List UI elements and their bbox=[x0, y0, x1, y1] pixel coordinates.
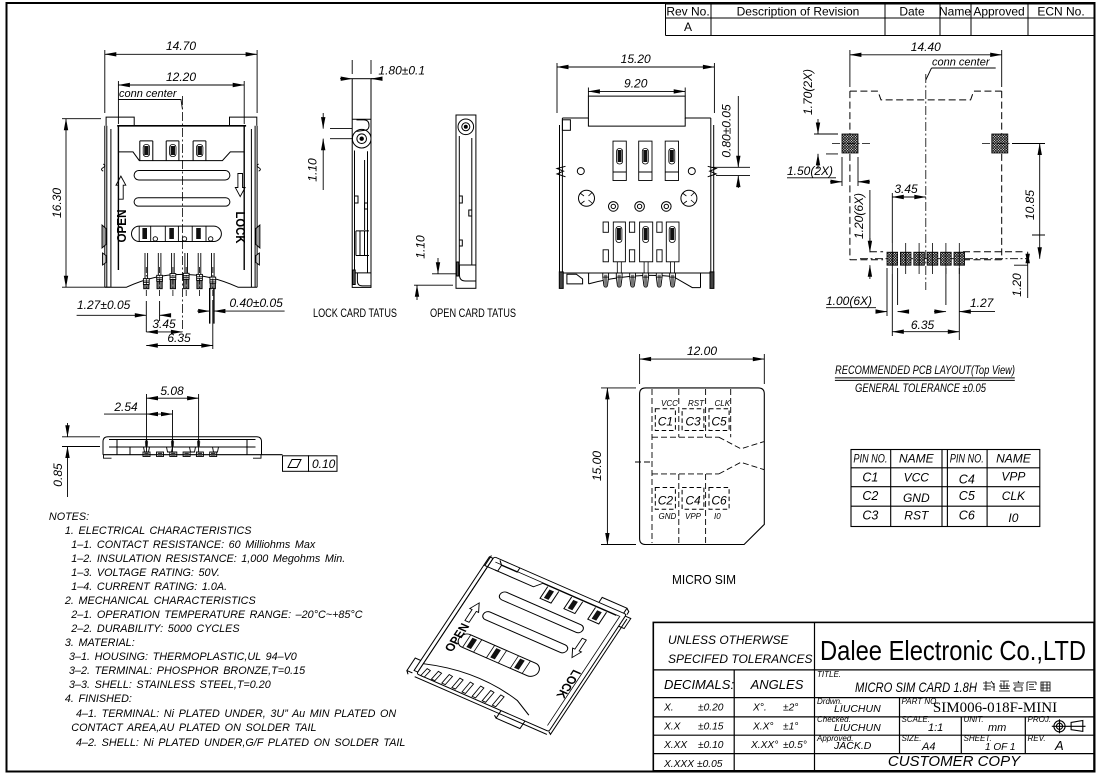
slots bbox=[132, 171, 230, 242]
lower contact slots bbox=[603, 222, 679, 262]
svg-text:A4: A4 bbox=[921, 741, 935, 753]
card outline bbox=[640, 388, 765, 545]
svg-text:X.X°: X.X° bbox=[752, 722, 774, 733]
svg-text:2–1. OPERATION TEMPERATURE RAN: 2–1. OPERATION TEMPERATURE RANGE: –20°C~… bbox=[70, 609, 362, 621]
top shoulder line bbox=[495, 564, 616, 621]
body outline bbox=[417, 557, 627, 732]
svg-text:SPECIFED TOLERANCES: SPECIFED TOLERANCES bbox=[668, 652, 812, 666]
body outline bbox=[557, 96, 716, 288]
dim 16.30 bbox=[62, 119, 110, 288]
svg-text:OPEN: OPEN bbox=[115, 210, 129, 243]
LOCK view bbox=[352, 79, 371, 288]
svg-text:MICRO SIM CARD 1.8H: MICRO SIM CARD 1.8H bbox=[855, 679, 978, 695]
svg-text:9.20: 9.20 bbox=[624, 77, 648, 91]
svg-text:VPP: VPP bbox=[1001, 470, 1025, 484]
svg-text:14.70: 14.70 bbox=[166, 39, 196, 53]
svg-text:GND: GND bbox=[659, 512, 677, 521]
svg-text:TITLE.: TITLE. bbox=[817, 670, 841, 679]
svg-text:CLK: CLK bbox=[715, 399, 731, 408]
svg-text:SIM006-018F-MINI: SIM006-018F-MINI bbox=[933, 700, 1057, 716]
svg-text:MICRO SIM: MICRO SIM bbox=[672, 572, 736, 587]
side rails bbox=[105, 126, 111, 287]
svg-text:1.20(6X): 1.20(6X) bbox=[852, 193, 866, 239]
svg-text:conn center: conn center bbox=[119, 88, 178, 100]
dashed outline bbox=[850, 91, 1026, 260]
slots bbox=[498, 591, 586, 635]
svg-text:±0.5°: ±0.5° bbox=[783, 740, 807, 751]
arrows bbox=[463, 594, 589, 667]
pins bbox=[143, 253, 215, 289]
small pad centerlines vertical bbox=[892, 243, 959, 274]
svg-text:±0.10: ±0.10 bbox=[698, 740, 724, 751]
svg-text:UNIT.: UNIT. bbox=[964, 715, 984, 724]
svg-text:4. FINISHED:: 4. FINISHED: bbox=[65, 693, 132, 705]
svg-text:REV.: REV. bbox=[1028, 734, 1046, 743]
svg-text:X.XXX: X.XXX bbox=[663, 759, 695, 770]
svg-text:ECN No.: ECN No. bbox=[1037, 5, 1084, 19]
svg-text:±0.15: ±0.15 bbox=[698, 722, 724, 733]
top corner tabs bbox=[106, 117, 134, 126]
svg-text:LOCK: LOCK bbox=[233, 212, 247, 244]
small circles bbox=[577, 168, 697, 212]
svg-text:GENERAL TOLERANCE ±0.05: GENERAL TOLERANCE ±0.05 bbox=[855, 381, 986, 395]
svg-text:LIUCHUN: LIUCHUN bbox=[834, 703, 881, 715]
svg-text:I0: I0 bbox=[714, 512, 721, 521]
svg-text:Rev No.: Rev No. bbox=[666, 5, 709, 19]
svg-text:C6: C6 bbox=[959, 509, 975, 523]
body bbox=[103, 437, 283, 458]
svg-text:6.35: 6.35 bbox=[911, 318, 935, 332]
svg-text:3.45: 3.45 bbox=[152, 317, 176, 331]
svg-text:RST: RST bbox=[904, 509, 930, 523]
body outline bbox=[105, 117, 257, 287]
cover top bbox=[117, 125, 246, 127]
svg-text:C5: C5 bbox=[711, 415, 727, 429]
svg-text:14.40: 14.40 bbox=[911, 40, 941, 54]
OPEN view bbox=[456, 115, 476, 288]
bottom arc bbox=[421, 656, 537, 715]
svg-text:LIUCHUN: LIUCHUN bbox=[834, 722, 881, 734]
svg-text:1:1: 1:1 bbox=[928, 722, 943, 734]
lower contacts in band bbox=[139, 226, 213, 241]
svg-text:4–2. SHELL: Ni PLATED UNDER,G/: 4–2. SHELL: Ni PLATED UNDER,G/F PLATED O… bbox=[76, 737, 405, 749]
splined circles bbox=[579, 190, 595, 206]
svg-text:RECOMMENDED PCB LAYOUT(Top Vie: RECOMMENDED PCB LAYOUT(Top View) bbox=[835, 363, 1015, 377]
svg-text:CUSTOMER COPY: CUSTOMER COPY bbox=[888, 753, 1021, 770]
svg-text:1.00(6X): 1.00(6X) bbox=[826, 294, 872, 308]
bottom edge bbox=[105, 274, 257, 287]
svg-text:C1: C1 bbox=[862, 471, 878, 485]
svg-text:1.80±0.1: 1.80±0.1 bbox=[378, 64, 425, 78]
svg-text:NOTES:: NOTES: bbox=[49, 511, 89, 523]
dim 14.70 bbox=[105, 50, 257, 113]
svg-text:NAME: NAME bbox=[996, 452, 1032, 466]
svg-text:0.40±0.05: 0.40±0.05 bbox=[230, 296, 284, 310]
svg-text:±2°: ±2° bbox=[783, 703, 798, 714]
svg-text:1 OF 1: 1 OF 1 bbox=[985, 742, 1015, 753]
svg-text:RST: RST bbox=[688, 399, 705, 408]
svg-text:Date: Date bbox=[899, 5, 925, 19]
svg-text:VPP: VPP bbox=[685, 512, 702, 521]
top contact windows bbox=[140, 141, 206, 161]
svg-text:1.27: 1.27 bbox=[970, 296, 995, 310]
svg-text:Description of Revision: Description of Revision bbox=[737, 5, 860, 19]
svg-text:4–1. TERMINAL: Ni PLATED UNDER: 4–1. TERMINAL: Ni PLATED UNDER, 3U” Au M… bbox=[76, 708, 396, 720]
svg-text:mm: mm bbox=[988, 722, 1006, 734]
svg-text:12.20: 12.20 bbox=[166, 70, 196, 84]
dim 12.20 bbox=[118, 81, 244, 124]
side latch details bbox=[102, 164, 261, 265]
bottom feet bbox=[567, 274, 583, 284]
shaped band bottom bbox=[118, 152, 244, 161]
svg-text:1.27±0.05: 1.27±0.05 bbox=[77, 298, 131, 312]
svg-text:1.10: 1.10 bbox=[306, 158, 320, 182]
svg-text:2.54: 2.54 bbox=[113, 400, 138, 414]
upper contact slots bbox=[613, 141, 679, 180]
corner tabs bbox=[485, 555, 520, 577]
contact pads dashed bbox=[655, 409, 729, 510]
svg-text:1.20: 1.20 bbox=[1010, 273, 1024, 297]
svg-text:OPEN CARD TATUS: OPEN CARD TATUS bbox=[430, 306, 516, 320]
svg-text:1–4. CURRENT RATING: 1.0A.: 1–4. CURRENT RATING: 1.0A. bbox=[71, 581, 227, 593]
svg-text:Dalee Electronic Co.,LTD: Dalee Electronic Co.,LTD bbox=[820, 635, 1086, 666]
svg-text:±0.05: ±0.05 bbox=[697, 759, 723, 770]
svg-text:±1°: ±1° bbox=[783, 722, 798, 733]
svg-text:C1: C1 bbox=[658, 415, 673, 429]
svg-text:C5: C5 bbox=[959, 489, 975, 503]
svg-text:1. ELECTRICAL CHARACTERISTICS: 1. ELECTRICAL CHARACTERISTICS bbox=[65, 525, 252, 537]
svg-text:X.XX: X.XX bbox=[663, 740, 688, 751]
svg-text:VCC: VCC bbox=[904, 471, 930, 485]
svg-text:C3: C3 bbox=[862, 509, 878, 523]
svg-text:3. MATERIAL:: 3. MATERIAL: bbox=[65, 637, 135, 649]
centerline bbox=[925, 74, 927, 290]
svg-text:1–2. INSULATION RESISTANCE: 1,: 1–2. INSULATION RESISTANCE: 1,000 Megohm… bbox=[71, 553, 345, 565]
svg-text:Name: Name bbox=[939, 5, 971, 19]
arrows up / down bbox=[116, 174, 245, 200]
svg-text:15.20: 15.20 bbox=[621, 52, 651, 66]
svg-text:2–2. DURABILITY: 5000 CYCLES: 2–2. DURABILITY: 5000 CYCLES bbox=[70, 623, 240, 635]
svg-text:15.00: 15.00 bbox=[590, 451, 604, 481]
svg-text:12.00: 12.00 bbox=[687, 344, 717, 358]
svg-text:C4: C4 bbox=[959, 473, 975, 487]
svg-text:C4: C4 bbox=[685, 494, 701, 508]
svg-text:C3: C3 bbox=[685, 415, 701, 429]
donuts bbox=[609, 202, 619, 212]
svg-text:3–2. TERMINAL: PHOSPHOR BRONZE: 3–2. TERMINAL: PHOSPHOR BRONZE,T=0.15 bbox=[69, 665, 306, 677]
pins at bottom bbox=[603, 273, 676, 287]
svg-text:C2: C2 bbox=[658, 494, 674, 508]
svg-text:1–1. CONTACT RESISTANCE: 60 Mi: 1–1. CONTACT RESISTANCE: 60 Milliohms Ma… bbox=[71, 539, 316, 551]
flatness callout bbox=[283, 456, 338, 472]
svg-text:LOCK CARD TATUS: LOCK CARD TATUS bbox=[313, 306, 397, 320]
svg-text:X.X: X.X bbox=[663, 722, 682, 733]
svg-text:DECIMALS:: DECIMALS: bbox=[664, 677, 734, 692]
svg-text:CONTACT AREA,AU PLATED ON SOLD: CONTACT AREA,AU PLATED ON SOLDER TAIL bbox=[71, 722, 316, 734]
svg-text:C6: C6 bbox=[711, 494, 727, 508]
svg-text:16.30: 16.30 bbox=[50, 188, 64, 218]
terminals under body bbox=[143, 447, 219, 457]
svg-text:0.85: 0.85 bbox=[51, 463, 65, 487]
svg-text:X.XX°: X.XX° bbox=[750, 740, 778, 751]
svg-text:GND: GND bbox=[903, 491, 930, 505]
small pads row bbox=[887, 252, 965, 265]
svg-text:6.35: 6.35 bbox=[167, 331, 191, 345]
svg-text:Approved: Approved bbox=[973, 5, 1024, 19]
big pads bbox=[842, 134, 1008, 153]
pad centerlines bbox=[832, 144, 1028, 259]
projection symbol bbox=[1052, 719, 1086, 733]
svg-text:ANGLES: ANGLES bbox=[750, 677, 804, 692]
svg-text:1.70(2X): 1.70(2X) bbox=[801, 69, 815, 115]
svg-text:2. MECHANICAL CHARACTERISTICS: 2. MECHANICAL CHARACTERISTICS bbox=[64, 595, 257, 607]
CJK title glyphs (drawn) bbox=[983, 681, 1050, 691]
svg-text:1–3. VOLTAGE RATING: 50V.: 1–3. VOLTAGE RATING: 50V. bbox=[71, 567, 220, 579]
svg-text:PIN NO.: PIN NO. bbox=[853, 452, 887, 466]
svg-text:X°.: X°. bbox=[752, 703, 767, 714]
top contact windows bbox=[540, 587, 607, 624]
svg-text:1.50(2X): 1.50(2X) bbox=[787, 164, 833, 178]
svg-text:±0.20: ±0.20 bbox=[698, 703, 724, 714]
pins comb bbox=[421, 663, 505, 708]
svg-text:NAME: NAME bbox=[899, 452, 935, 466]
svg-text:C2: C2 bbox=[862, 489, 878, 503]
svg-text:PROJ.: PROJ. bbox=[1028, 715, 1052, 724]
svg-text:0.10: 0.10 bbox=[312, 457, 336, 471]
svg-text:UNLESS OTHERWSE: UNLESS OTHERWSE bbox=[668, 633, 789, 647]
svg-text:1.10: 1.10 bbox=[414, 235, 428, 259]
centerline bbox=[181, 96, 183, 332]
contacts dark bbox=[466, 574, 601, 685]
svg-text:3–1. HOUSING: THERMOPLASTIC,UL: 3–1. HOUSING: THERMOPLASTIC,UL 94–V0 bbox=[69, 651, 297, 663]
svg-text:I0: I0 bbox=[1008, 511, 1018, 525]
svg-text:A: A bbox=[684, 20, 692, 34]
svg-text:A: A bbox=[1054, 738, 1064, 753]
svg-text:3.45: 3.45 bbox=[894, 182, 918, 196]
svg-text:5.08: 5.08 bbox=[160, 384, 184, 398]
svg-text:SIZE.: SIZE. bbox=[902, 734, 922, 743]
svg-text:10.85: 10.85 bbox=[1023, 190, 1037, 220]
svg-text:SCALE.: SCALE. bbox=[902, 715, 930, 724]
svg-text:CLK: CLK bbox=[1002, 489, 1026, 503]
svg-text:0.80±0.05: 0.80±0.05 bbox=[720, 104, 734, 158]
svg-text:X.: X. bbox=[663, 703, 674, 714]
svg-text:JACK.D: JACK.D bbox=[833, 740, 872, 752]
svg-text:conn center: conn center bbox=[932, 57, 991, 69]
svg-text:PIN NO.: PIN NO. bbox=[950, 452, 984, 466]
svg-text:VCC: VCC bbox=[661, 399, 678, 408]
svg-text:3–3. SHELL: STAINLESS STEEL,T=: 3–3. SHELL: STAINLESS STEEL,T=0.20 bbox=[69, 679, 271, 691]
dashed column lines bbox=[635, 389, 764, 543]
